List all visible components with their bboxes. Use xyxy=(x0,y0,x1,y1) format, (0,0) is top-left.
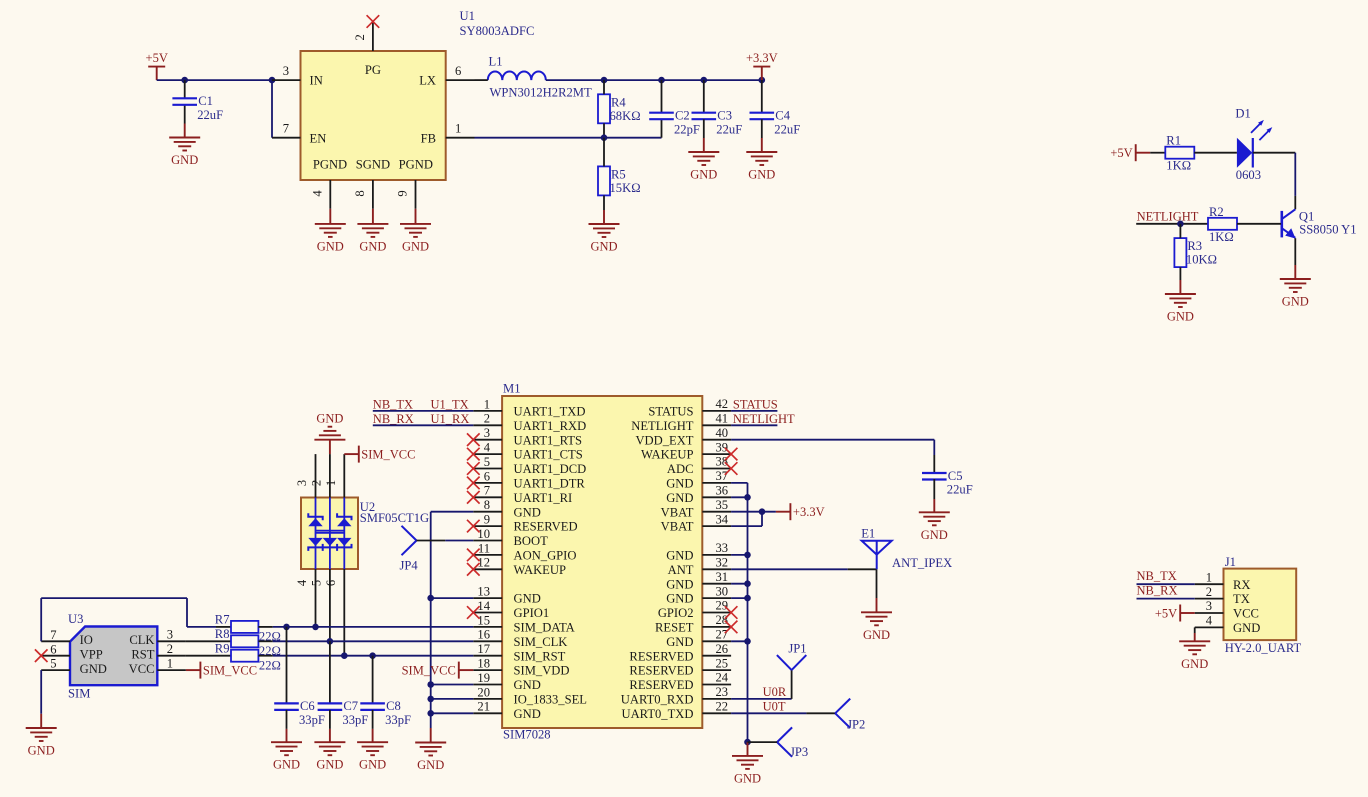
svg-text:GND: GND xyxy=(317,239,344,253)
svg-text:2: 2 xyxy=(484,412,490,426)
svg-text:1KΩ: 1KΩ xyxy=(1209,230,1234,244)
connector U3 body (SIM card) xyxy=(70,627,157,686)
no-connect X on M1 pin 12 xyxy=(467,563,480,576)
svg-text:6: 6 xyxy=(324,580,338,586)
svg-text:GND: GND xyxy=(80,662,107,676)
U1 pin 4 PGND stub xyxy=(310,180,330,209)
M1 pin 22 UART0_TXD xyxy=(621,700,731,721)
svg-text:17: 17 xyxy=(477,642,490,656)
U1 pin 7 EN stub xyxy=(272,122,301,138)
wire UART1_TXD net xyxy=(373,410,474,412)
power port +5V (LED) xyxy=(1110,144,1150,161)
svg-text:UART0_TXD: UART0_TXD xyxy=(621,707,693,721)
svg-text:GND: GND xyxy=(171,153,198,167)
svg-text:C3: C3 xyxy=(717,109,732,123)
wire JP4 to BOOT pin xyxy=(445,540,473,542)
svg-text:TX: TX xyxy=(1233,592,1250,606)
svg-text:4: 4 xyxy=(484,441,491,455)
svg-text:IN: IN xyxy=(310,74,323,88)
svg-text:R4: R4 xyxy=(611,95,626,109)
svg-text:R8: R8 xyxy=(215,627,230,641)
svg-text:3: 3 xyxy=(484,426,490,440)
wire C1 junction to U1 IN xyxy=(185,79,272,81)
wire VBAT pin35 net xyxy=(731,511,776,513)
U2 pin 2 stub xyxy=(309,454,330,497)
M1 pin 2 UART1_RXD xyxy=(473,412,586,433)
svg-text:GND: GND xyxy=(590,240,617,254)
wire ANT net xyxy=(731,568,848,570)
capacitor C4 xyxy=(750,80,801,136)
svg-text:26: 26 xyxy=(716,642,729,656)
resistor R9 xyxy=(215,641,281,672)
wire IO loop to R7 xyxy=(187,626,216,628)
wire U3 GND down xyxy=(40,670,42,714)
wire C5 riser upper xyxy=(933,440,935,455)
wire NB_RX to J1 TX xyxy=(1137,598,1195,600)
svg-text:5: 5 xyxy=(309,580,323,586)
wire R7 right stub xyxy=(258,626,272,628)
jumper JP1 xyxy=(777,642,807,671)
M1 pin 13 GND xyxy=(473,585,540,606)
no-connect X on M1 pin 6 xyxy=(467,477,480,490)
svg-text:GND: GND xyxy=(863,628,890,642)
no-connect X on M1 pin 38 xyxy=(725,462,738,475)
capacitor C8 xyxy=(360,656,411,727)
node bus at pin31 xyxy=(744,580,751,587)
U2 pin 3 stub xyxy=(295,454,316,497)
svg-text:ADC: ADC xyxy=(667,462,694,476)
svg-text:9: 9 xyxy=(484,513,490,527)
svg-text:GND: GND xyxy=(402,239,429,253)
svg-text:33pF: 33pF xyxy=(385,713,411,727)
wire +5V to R1 xyxy=(1150,152,1165,154)
svg-text:GND: GND xyxy=(359,239,386,253)
svg-text:GND: GND xyxy=(666,592,693,606)
node bus at pin21 xyxy=(427,710,434,717)
wire bus to pin27 xyxy=(731,640,747,642)
wire NB_TX to J1 RX xyxy=(1137,583,1195,585)
ground for C1 xyxy=(169,124,200,168)
wire UART1_RXD net xyxy=(373,424,474,426)
svg-text:U1_TX: U1_TX xyxy=(431,397,469,411)
svg-text:SIM: SIM xyxy=(68,687,90,701)
M1 pin 42 STATUS xyxy=(648,397,731,418)
svg-text:JP2: JP2 xyxy=(847,717,865,731)
svg-text:NB_RX: NB_RX xyxy=(1137,583,1178,597)
svg-text:22Ω: 22Ω xyxy=(259,658,281,672)
svg-text:+3.3V: +3.3V xyxy=(793,505,825,519)
node VOUT at C3 xyxy=(701,77,708,84)
wire VOUT to R4 xyxy=(603,80,605,94)
wire R9 right stub xyxy=(258,655,272,657)
svg-text:SIM7028: SIM7028 xyxy=(503,728,551,742)
svg-text:C2: C2 xyxy=(675,109,690,123)
svg-text:E1: E1 xyxy=(861,527,875,541)
wire R8 right stub xyxy=(258,640,272,642)
svg-text:33pF: 33pF xyxy=(299,713,325,727)
M1 pin 6 UART1_DTR xyxy=(473,469,585,490)
svg-text:VDD_EXT: VDD_EXT xyxy=(635,433,693,447)
U3 reference labels xyxy=(68,612,90,700)
no-connect X on M1 pin 14 xyxy=(467,606,480,619)
svg-text:4: 4 xyxy=(295,579,309,586)
wire STATUS net xyxy=(731,410,777,412)
wire UART0_RXD net xyxy=(731,698,792,700)
svg-text:NB_TX: NB_TX xyxy=(373,397,413,411)
svg-text:M1: M1 xyxy=(503,382,521,396)
wire IO loop across xyxy=(41,597,187,599)
wire M1 pin8 GND to bus xyxy=(431,511,474,513)
svg-text:5: 5 xyxy=(50,657,56,671)
J1 pin 1 stub xyxy=(1195,570,1224,584)
M1 pin 29 GPIO2 xyxy=(658,599,731,620)
M1 pin 23 UART0_RXD xyxy=(621,685,731,706)
U3 pin names xyxy=(80,633,155,676)
no-connect X on M1 pin 29 xyxy=(725,606,738,619)
node SIM_DATA at C6 xyxy=(283,624,290,631)
svg-text:39: 39 xyxy=(716,440,729,454)
svg-text:1: 1 xyxy=(324,480,338,486)
svg-text:SIM_VCC: SIM_VCC xyxy=(361,448,415,462)
svg-text:ANT: ANT xyxy=(668,563,694,577)
svg-text:NETLIGHT: NETLIGHT xyxy=(1137,210,1199,224)
svg-text:32: 32 xyxy=(716,556,729,570)
M1 pin 21 GND xyxy=(473,700,540,721)
ground for C3 xyxy=(688,119,719,181)
wire +5V to C1 junction xyxy=(157,79,185,81)
ground for U1 pin 4 xyxy=(315,209,346,254)
wire bus to pin20 xyxy=(431,698,474,700)
wire M1 pin37 GND to bus xyxy=(731,482,747,484)
wire bus to pin30 xyxy=(731,597,747,599)
svg-text:7: 7 xyxy=(484,484,490,498)
svg-text:GND: GND xyxy=(1282,295,1309,309)
svg-text:13: 13 xyxy=(477,585,490,599)
U3 pin 3 CLK stub xyxy=(157,628,186,642)
node VOUT at R4 xyxy=(601,77,608,84)
U3 pin 6 VPP stub xyxy=(41,642,70,656)
svg-text:16: 16 xyxy=(477,628,490,642)
ground for R5 xyxy=(589,195,620,253)
wire R1 to D1 xyxy=(1194,152,1237,154)
no-connect X on U1 pin 2 xyxy=(367,15,380,28)
svg-text:22pF: 22pF xyxy=(674,122,700,136)
svg-text:GND: GND xyxy=(666,477,693,491)
svg-text:5: 5 xyxy=(484,455,490,469)
svg-text:22: 22 xyxy=(716,700,729,714)
svg-text:SS8050 Y1: SS8050 Y1 xyxy=(1299,223,1356,237)
jumper JP2 xyxy=(835,699,865,732)
ground for C7 xyxy=(314,710,345,772)
wire collector pin xyxy=(1294,196,1296,209)
U2 pin 1 stub xyxy=(324,454,345,497)
ground for M1 right bus xyxy=(732,742,763,785)
svg-text:RX: RX xyxy=(1233,578,1251,592)
svg-text:WPN3012H2R2MT: WPN3012H2R2MT xyxy=(490,85,592,99)
node +5V at C1 xyxy=(181,77,188,84)
U1 reference labels xyxy=(460,9,535,38)
wire SIM_DATA row xyxy=(273,626,474,628)
svg-text:NETLIGHT: NETLIGHT xyxy=(631,419,694,433)
svg-text:WAKEUP: WAKEUP xyxy=(641,448,693,462)
svg-text:C5: C5 xyxy=(948,469,963,483)
node bus at pin33 xyxy=(744,552,751,559)
svg-text:68KΩ: 68KΩ xyxy=(610,109,641,123)
M1 pin 1 UART1_TXD xyxy=(473,397,585,418)
capacitor C7 xyxy=(318,641,369,727)
node NETLIGHT at R3 xyxy=(1177,221,1184,228)
svg-text:6: 6 xyxy=(484,469,490,483)
no-connect X on U3 pin 6 xyxy=(35,649,48,662)
svg-text:GND: GND xyxy=(273,758,300,772)
svg-text:+5V: +5V xyxy=(146,51,168,65)
svg-text:VBAT: VBAT xyxy=(661,520,694,534)
svg-text:NETLIGHT: NETLIGHT xyxy=(733,412,795,426)
svg-text:10KΩ: 10KΩ xyxy=(1186,253,1217,267)
resistor R8 xyxy=(215,627,281,658)
svg-text:SGND: SGND xyxy=(356,158,390,172)
wire bus to JP3 xyxy=(748,741,778,743)
M1 pin 11 AON_GPIO xyxy=(473,541,576,562)
svg-text:GND: GND xyxy=(316,412,343,426)
svg-text:30: 30 xyxy=(716,584,729,598)
resistor R5 xyxy=(598,166,641,195)
svg-text:IO_1833_SEL: IO_1833_SEL xyxy=(514,693,587,707)
ground for C5 xyxy=(919,479,950,542)
node +5V at U1 IN/EN xyxy=(269,77,276,84)
U1 pin 3 IN stub xyxy=(272,64,301,80)
svg-text:UART1_CTS: UART1_CTS xyxy=(514,448,583,462)
svg-text:UART0_RXD: UART0_RXD xyxy=(621,693,694,707)
svg-text:19: 19 xyxy=(477,671,490,685)
svg-text:20: 20 xyxy=(477,685,490,699)
node bus at pin20 xyxy=(427,696,434,703)
resistor R7 xyxy=(215,613,281,644)
ground for C4 xyxy=(746,119,777,181)
svg-text:+3.3V: +3.3V xyxy=(746,51,778,65)
M1 pin 24 RESERVED xyxy=(629,671,731,692)
svg-text:AON_GPIO: AON_GPIO xyxy=(514,549,577,563)
svg-text:D1: D1 xyxy=(1235,106,1250,120)
wire JP2 stub xyxy=(806,712,835,714)
M1 pin 35 VBAT xyxy=(661,498,731,519)
wire R7 left stub xyxy=(216,626,231,628)
M1 pin 12 WAKEUP xyxy=(473,556,566,577)
ground for C6 xyxy=(271,710,302,772)
svg-text:GND: GND xyxy=(666,577,693,591)
ground for E1 xyxy=(861,569,892,642)
U2 reference labels xyxy=(360,500,429,525)
no-connect X on M1 pin 39 xyxy=(725,448,738,461)
M1 pin 40 VDD_EXT xyxy=(635,426,731,447)
svg-text:GND: GND xyxy=(690,168,717,182)
resistor R2 xyxy=(1208,205,1237,244)
svg-text:R5: R5 xyxy=(611,167,626,181)
svg-text:HY-2.0_UART: HY-2.0_UART xyxy=(1225,641,1302,655)
svg-text:3: 3 xyxy=(1206,599,1212,613)
svg-text:2: 2 xyxy=(167,642,173,656)
svg-text:GND: GND xyxy=(921,528,948,542)
svg-text:GND: GND xyxy=(1181,657,1208,671)
svg-text:38: 38 xyxy=(716,455,729,469)
svg-text:VPP: VPP xyxy=(80,648,103,662)
jumper JP4 xyxy=(400,526,419,573)
inductor L1 xyxy=(488,54,592,99)
M1 pin 7 UART1_RI xyxy=(473,484,572,505)
M1 pin 3 UART1_RTS xyxy=(473,426,582,447)
wire J1 GND down xyxy=(1194,627,1196,633)
ground stem to U2 pin 2 xyxy=(329,440,331,454)
antenna E1 (ANT_IPEX) xyxy=(861,527,952,571)
M1 pin 31 GND xyxy=(666,570,731,591)
ground for U1 pin 8 xyxy=(357,209,388,254)
power port +5V xyxy=(146,51,168,80)
svg-text:7: 7 xyxy=(50,628,56,642)
wire output node to +3.3V xyxy=(604,79,762,81)
svg-text:22uF: 22uF xyxy=(716,122,742,136)
svg-text:PGND: PGND xyxy=(399,158,433,172)
no-connect X on M1 pin 9 xyxy=(467,520,480,533)
svg-text:GND: GND xyxy=(514,505,541,519)
svg-text:RESERVED: RESERVED xyxy=(629,664,693,678)
svg-text:0603: 0603 xyxy=(1236,168,1261,182)
svg-text:R3: R3 xyxy=(1187,239,1202,253)
wire NETLIGHT net xyxy=(731,424,777,426)
svg-text:RESET: RESET xyxy=(655,621,694,635)
svg-text:RESERVED: RESERVED xyxy=(514,520,578,534)
node bus at pin36 xyxy=(744,494,751,501)
svg-text:37: 37 xyxy=(716,469,729,483)
svg-text:EN: EN xyxy=(310,131,327,145)
svg-text:GND: GND xyxy=(666,491,693,505)
svg-text:SY8003ADFC: SY8003ADFC xyxy=(460,24,535,38)
wire collector vertical xyxy=(1294,153,1296,196)
svg-text:GND: GND xyxy=(1167,310,1194,324)
power port +3.3V (VBAT) xyxy=(776,503,825,520)
svg-text:PGND: PGND xyxy=(313,158,347,172)
ground for R3 xyxy=(1165,267,1196,323)
capacitor C6 xyxy=(274,627,325,727)
wire FB to R5 xyxy=(603,138,605,167)
U2 internal diodes xyxy=(308,498,351,570)
wire VBAT pin34 riser xyxy=(731,525,762,527)
U3 pin 1 VCC stub xyxy=(157,656,186,670)
node SIM_DATA at U2 pin4 xyxy=(312,624,319,631)
svg-text:15: 15 xyxy=(477,613,490,627)
wire SIM_CLK row xyxy=(273,640,474,642)
connector J1 body (HY-2.0_UART) xyxy=(1224,569,1297,641)
svg-text:U1_RX: U1_RX xyxy=(431,412,470,426)
M1 pin 4 UART1_CTS xyxy=(473,441,582,462)
svg-text:24: 24 xyxy=(716,671,729,685)
svg-text:GND: GND xyxy=(514,592,541,606)
svg-text:RST: RST xyxy=(131,648,154,662)
wire bus to pin13 xyxy=(431,597,474,599)
no-connect X on M1 pin 7 xyxy=(467,491,480,504)
ground for U1 pin 9 xyxy=(400,209,431,254)
capacitor C5 xyxy=(922,469,973,497)
svg-text:UART1_DTR: UART1_DTR xyxy=(514,477,586,491)
svg-text:STATUS: STATUS xyxy=(648,405,693,419)
svg-text:1: 1 xyxy=(455,122,461,136)
svg-text:U1: U1 xyxy=(460,9,475,23)
svg-text:STATUS: STATUS xyxy=(733,397,778,411)
J1 pin names xyxy=(1233,578,1260,635)
svg-text:1: 1 xyxy=(167,656,173,670)
U3 pin 2 RST stub xyxy=(157,642,186,656)
svg-text:VCC: VCC xyxy=(129,662,155,676)
M1 pin 10 BOOT xyxy=(473,527,548,548)
no-connect X on M1 pin 3 xyxy=(467,433,480,446)
wire L1 to output node xyxy=(546,79,604,81)
U2 pin 6 stub xyxy=(324,569,345,656)
svg-text:R7: R7 xyxy=(215,613,230,627)
svg-text:+5V: +5V xyxy=(1110,146,1132,160)
svg-text:36: 36 xyxy=(716,484,729,498)
svg-text:22uF: 22uF xyxy=(947,483,973,497)
M1 pin 8 GND xyxy=(473,498,540,519)
svg-text:L1: L1 xyxy=(489,54,503,68)
svg-text:3: 3 xyxy=(295,480,309,486)
svg-text:U0R: U0R xyxy=(763,685,787,699)
svg-text:15KΩ: 15KΩ xyxy=(610,181,641,195)
wire left GND bus vertical xyxy=(430,512,432,728)
svg-text:GND: GND xyxy=(316,758,343,772)
svg-text:35: 35 xyxy=(716,498,729,512)
power port SIM_VCC (U2 pin 1) xyxy=(344,446,415,463)
no-connect X on M1 pin 11 xyxy=(467,549,480,562)
svg-text:41: 41 xyxy=(716,412,729,426)
svg-text:CLK: CLK xyxy=(129,633,154,647)
power port SIM_VCC (pin 18) xyxy=(402,662,474,679)
svg-text:ANT_IPEX: ANT_IPEX xyxy=(892,556,952,570)
U3 pin 7 IO stub xyxy=(41,628,70,642)
wire NETLIGHT to R2 xyxy=(1136,223,1208,225)
ground for J1 xyxy=(1179,633,1210,671)
M1 pin 25 RESERVED xyxy=(629,656,731,677)
wire bus to pin19 xyxy=(431,684,474,686)
wire R4 to FB xyxy=(603,123,605,137)
svg-text:UART1_RTS: UART1_RTS xyxy=(514,433,582,447)
J1 pin 4 stub xyxy=(1195,614,1224,628)
svg-text:1: 1 xyxy=(1206,570,1212,584)
svg-text:R2: R2 xyxy=(1209,205,1224,219)
svg-text:14: 14 xyxy=(477,599,490,613)
U1 pin 9 PGND stub xyxy=(396,180,416,209)
svg-text:NB_RX: NB_RX xyxy=(373,412,414,426)
svg-text:SIM_VCC: SIM_VCC xyxy=(402,664,456,678)
svg-text:PG: PG xyxy=(365,63,381,77)
M1 pin 14 GPIO1 xyxy=(473,599,549,620)
svg-text:GND: GND xyxy=(417,758,444,772)
wire UART0_TXD net xyxy=(731,712,806,714)
svg-text:GND: GND xyxy=(514,707,541,721)
wire VDD_EXT to C5 xyxy=(731,439,934,441)
svg-text:J1: J1 xyxy=(1225,555,1236,569)
svg-text:6: 6 xyxy=(455,64,461,78)
svg-text:23: 23 xyxy=(716,685,729,699)
svg-text:1KΩ: 1KΩ xyxy=(1166,159,1191,173)
U3 pin 5 GND stub xyxy=(41,657,70,671)
svg-text:VBAT: VBAT xyxy=(661,505,694,519)
svg-text:GND: GND xyxy=(1233,621,1260,635)
svg-text:GND: GND xyxy=(359,758,386,772)
svg-text:27: 27 xyxy=(716,628,729,642)
svg-text:SIM_RST: SIM_RST xyxy=(514,649,566,663)
M1 pin 27 GND xyxy=(666,628,731,649)
U1 pin 1 FB stub xyxy=(446,122,475,138)
M1 pin 32 ANT xyxy=(668,556,731,577)
